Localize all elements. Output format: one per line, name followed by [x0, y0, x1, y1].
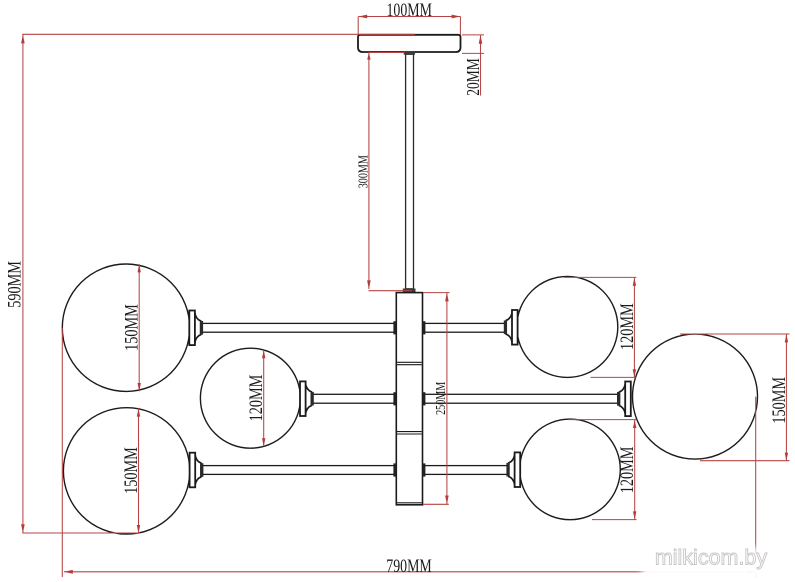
svg-text:590MM: 590MM: [4, 261, 25, 308]
svg-text:120MM: 120MM: [245, 375, 266, 422]
svg-text:300MM: 300MM: [355, 155, 371, 189]
svg-text:120MM: 120MM: [616, 446, 637, 493]
svg-text:100MM: 100MM: [386, 0, 432, 20]
svg-text:150MM: 150MM: [120, 447, 141, 494]
svg-text:150MM: 150MM: [768, 377, 789, 424]
svg-text:120MM: 120MM: [616, 303, 637, 350]
svg-text:20MM: 20MM: [464, 58, 483, 95]
svg-text:150MM: 150MM: [121, 304, 142, 351]
svg-text:790MM: 790MM: [386, 555, 432, 576]
svg-text:250MM: 250MM: [433, 381, 449, 415]
svg-text:milkicom.by: milkicom.by: [655, 546, 768, 570]
